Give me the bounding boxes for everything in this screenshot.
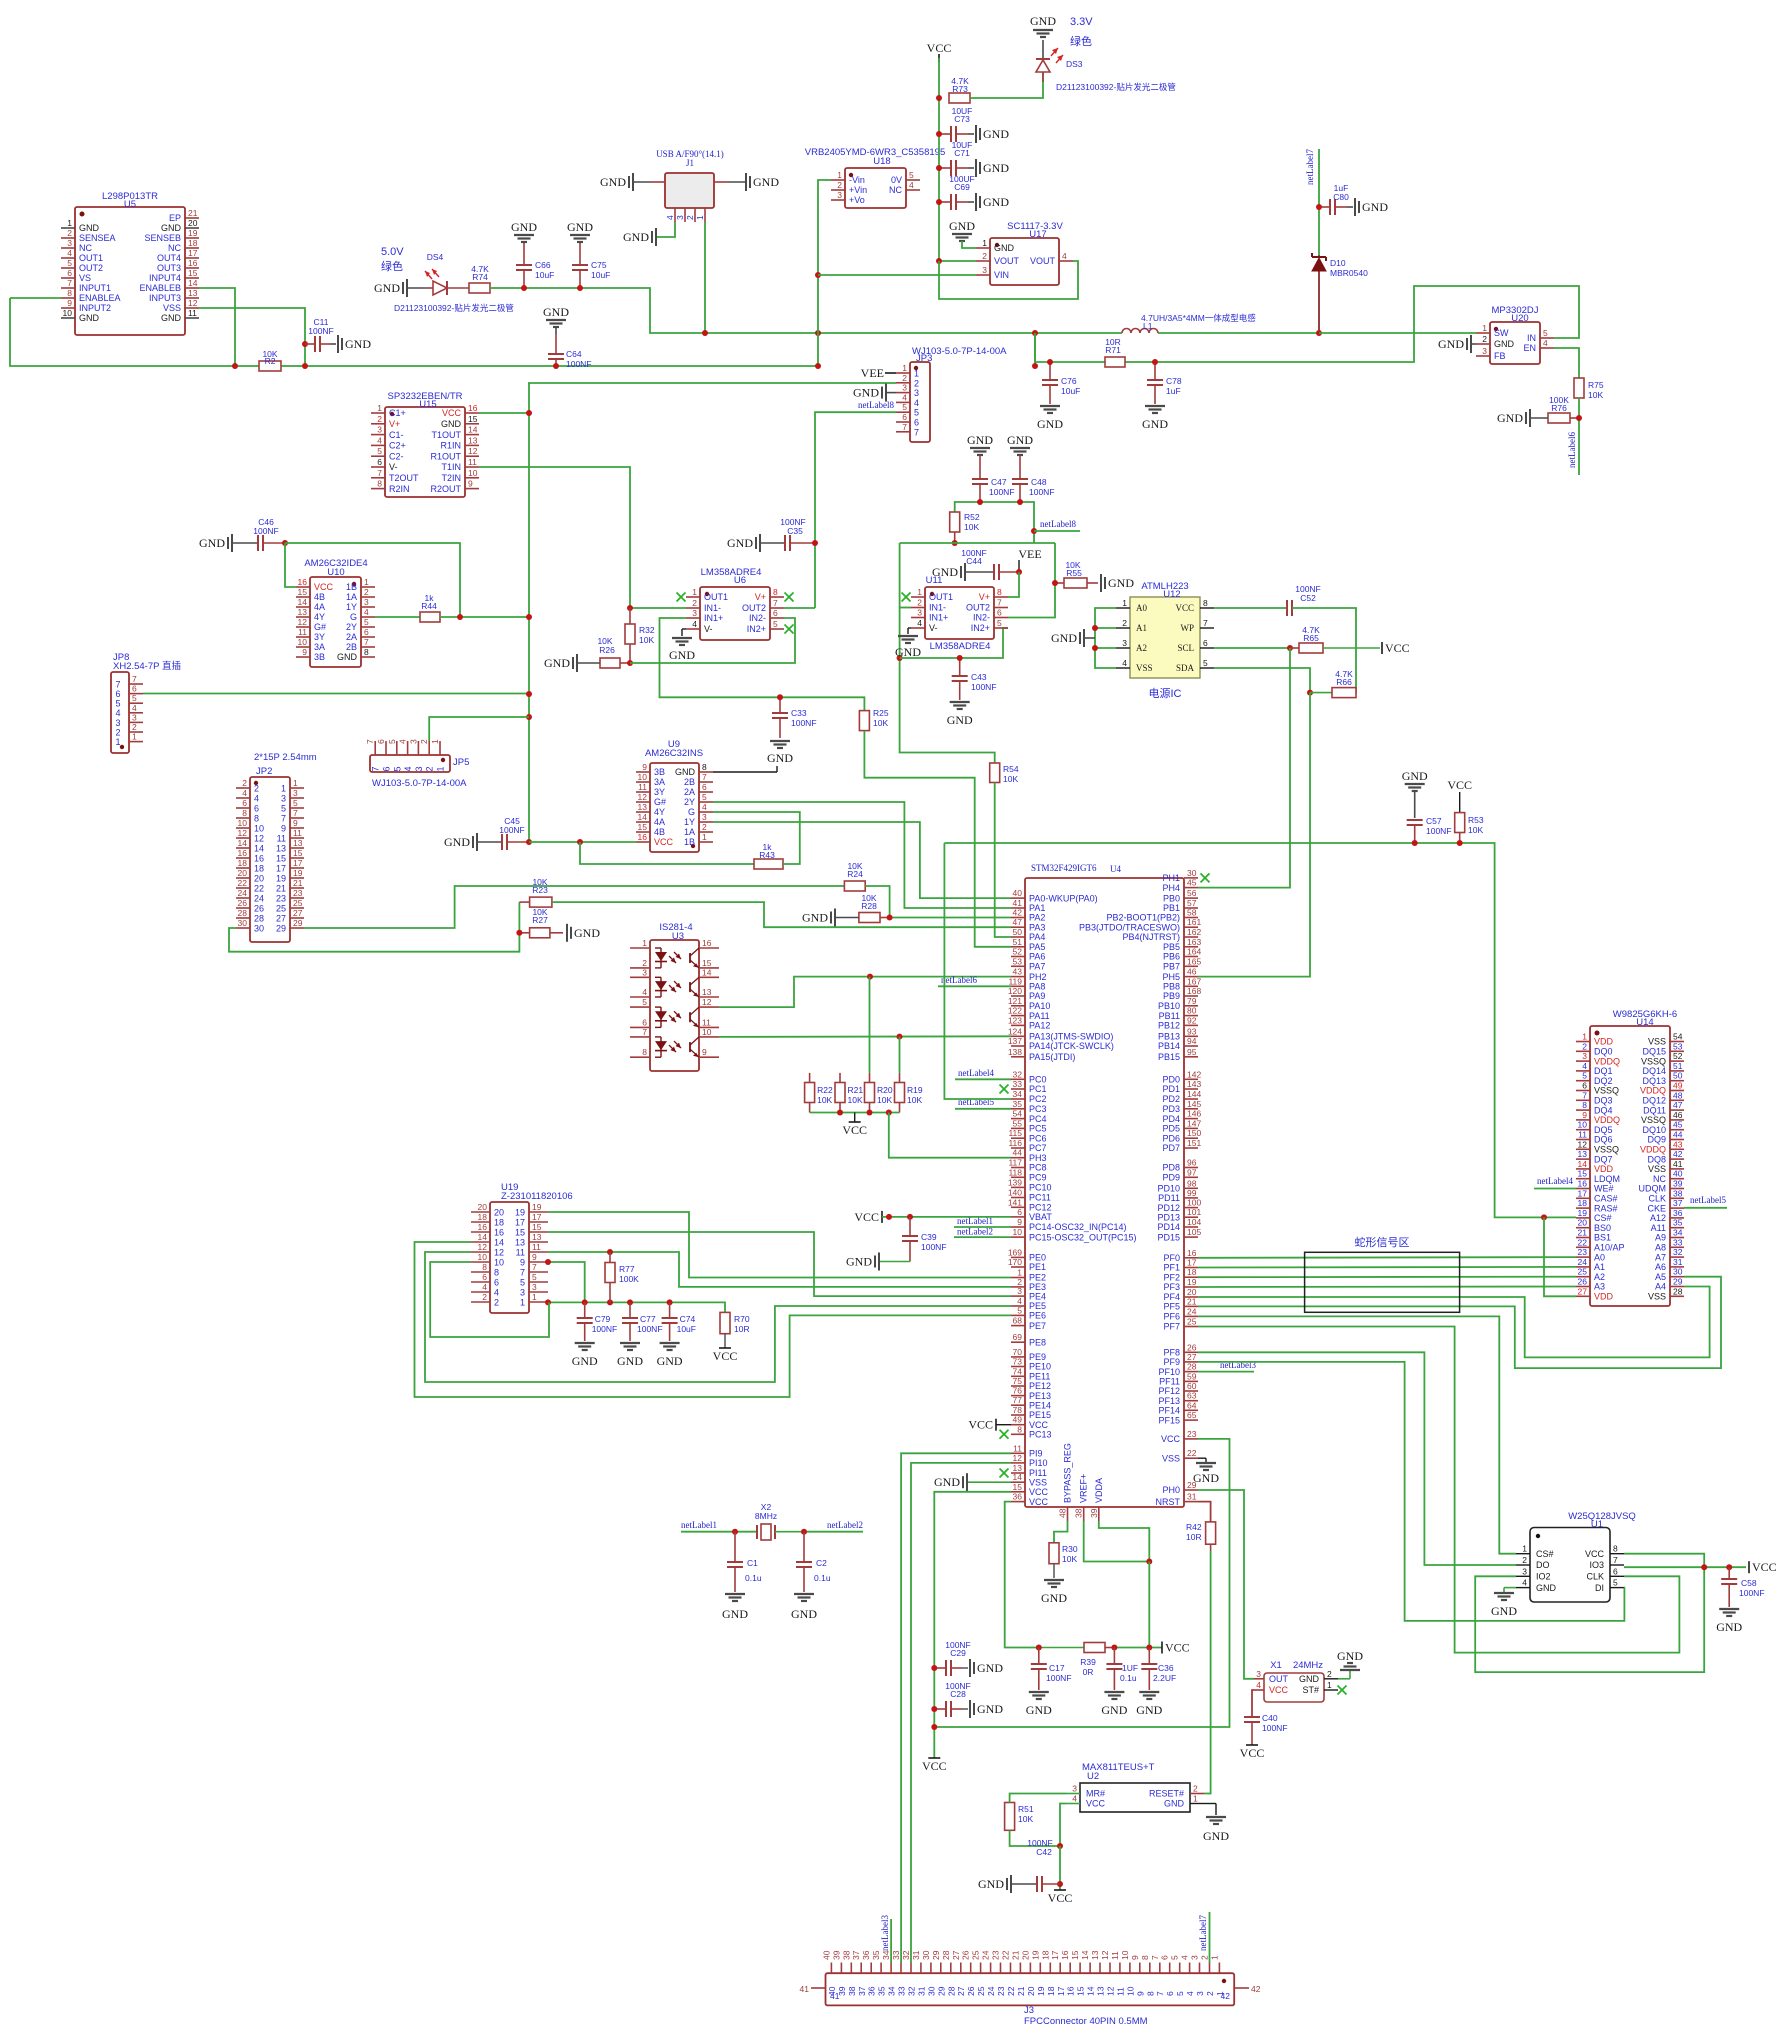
SDRAM U14 W9825G6KH-6 xyxy=(1576,1009,1684,1306)
svg-text:PD4: PD4 xyxy=(1162,1114,1180,1124)
svg-text:12: 12 xyxy=(1106,1986,1116,1996)
svg-text:OUT2: OUT2 xyxy=(79,263,103,273)
wire xyxy=(882,1216,1011,1218)
IC U9 AM26C32INS xyxy=(636,739,713,852)
svg-text:PC11: PC11 xyxy=(1029,1193,1051,1203)
svg-text:70: 70 xyxy=(1013,1347,1023,1357)
svg-text:PA3: PA3 xyxy=(1029,922,1045,932)
svg-text:1: 1 xyxy=(520,1297,525,1307)
junction xyxy=(886,1214,892,1220)
svg-text:6: 6 xyxy=(254,803,259,813)
svg-text:5: 5 xyxy=(132,693,137,703)
svg-text:43: 43 xyxy=(1673,1139,1683,1149)
svg-text:2: 2 xyxy=(1327,1669,1332,1679)
LED DS3 xyxy=(1036,40,1083,82)
svg-text:100NF: 100NF xyxy=(1426,826,1452,836)
svg-text:15: 15 xyxy=(1070,1950,1080,1960)
svg-text:IN1+: IN1+ xyxy=(704,613,723,623)
svg-text:1: 1 xyxy=(115,737,120,747)
wire U3 pin10 xyxy=(719,1035,1011,1038)
junction xyxy=(526,410,532,416)
svg-text:16: 16 xyxy=(494,1227,504,1237)
wire VIN xyxy=(818,274,976,276)
junction xyxy=(936,131,942,137)
svg-text:30: 30 xyxy=(238,918,248,928)
svg-text:39: 39 xyxy=(831,1950,841,1960)
svg-text:3: 3 xyxy=(532,1282,537,1292)
wire xyxy=(1060,1804,1066,1847)
svg-text:2: 2 xyxy=(982,251,987,261)
svg-text:C28: C28 xyxy=(950,1689,966,1699)
svg-text:RESET#: RESET# xyxy=(1149,1789,1184,1799)
svg-text:5: 5 xyxy=(902,402,907,412)
svg-text:29: 29 xyxy=(1673,1277,1683,1287)
wire xyxy=(1148,1562,1150,1648)
svg-text:C58: C58 xyxy=(1741,1578,1757,1588)
connector U19 xyxy=(471,1182,573,1313)
svg-text:3B: 3B xyxy=(654,767,665,777)
svg-text:7: 7 xyxy=(293,808,298,818)
wire xyxy=(1010,1794,1066,1803)
ground xyxy=(949,219,975,241)
svg-text:C1: C1 xyxy=(747,1558,758,1568)
svg-text:16: 16 xyxy=(1060,1950,1070,1960)
svg-text:11: 11 xyxy=(1110,1951,1120,1960)
svg-text:6: 6 xyxy=(702,782,707,792)
svg-text:C36: C36 xyxy=(1158,1663,1174,1673)
no-connect xyxy=(677,593,686,602)
svg-text:PA6: PA6 xyxy=(1029,952,1045,962)
wire PF6 to CS# xyxy=(1198,1316,1516,1553)
svg-text:VDDA: VDDA xyxy=(1094,1478,1104,1503)
svg-text:4: 4 xyxy=(494,1287,499,1297)
svg-text:14: 14 xyxy=(638,812,648,822)
svg-text:12: 12 xyxy=(188,298,198,308)
junction xyxy=(936,165,942,171)
svg-text:X1: X1 xyxy=(1270,1660,1282,1671)
svg-text:PC14-OSC32_IN(PC14): PC14-OSC32_IN(PC14) xyxy=(1029,1222,1127,1232)
svg-text:16: 16 xyxy=(468,403,478,413)
wire U19.10 loop xyxy=(430,1262,549,1337)
svg-text:GND: GND xyxy=(623,230,649,244)
svg-text:100NF: 100NF xyxy=(566,359,592,369)
connector JP2 xyxy=(236,752,317,942)
capacitor C64 xyxy=(548,334,592,369)
svg-text:VDDQ: VDDQ xyxy=(1640,1145,1666,1155)
svg-text:68: 68 xyxy=(1013,1316,1023,1326)
net netLabel5 xyxy=(958,1097,994,1107)
svg-text:119: 119 xyxy=(1008,976,1022,986)
svg-text:8: 8 xyxy=(1613,1544,1618,1554)
svg-text:5.0V: 5.0V xyxy=(381,246,404,258)
svg-text:10uF: 10uF xyxy=(677,1324,696,1334)
ground xyxy=(962,1659,1003,1677)
ground xyxy=(934,1473,1011,1491)
svg-text:7: 7 xyxy=(115,679,120,689)
svg-text:10: 10 xyxy=(478,1252,488,1262)
wire VREF xyxy=(1084,1521,1150,1562)
svg-text:GND: GND xyxy=(978,1877,1004,1891)
svg-text:4: 4 xyxy=(242,788,247,798)
svg-text:1: 1 xyxy=(1482,323,1487,333)
svg-text:1: 1 xyxy=(702,832,707,842)
power VCC xyxy=(1382,641,1410,655)
svg-text:GND: GND xyxy=(727,536,753,550)
svg-text:GND: GND xyxy=(617,1354,643,1368)
svg-text:1: 1 xyxy=(1327,1680,1332,1690)
svg-text:R26: R26 xyxy=(599,645,615,655)
svg-text:PB4(NJTRST): PB4(NJTRST) xyxy=(1122,932,1180,942)
svg-text:T2IN: T2IN xyxy=(441,473,461,483)
svg-text:27: 27 xyxy=(956,1986,966,1996)
wire U19.19 to PE2 xyxy=(548,1212,1011,1278)
ground xyxy=(968,159,1009,177)
svg-text:C74: C74 xyxy=(680,1314,696,1324)
ground xyxy=(330,335,371,353)
wire PF2-A2 xyxy=(1198,1276,1576,1279)
svg-text:C2: C2 xyxy=(816,1558,827,1568)
svg-text:14: 14 xyxy=(298,597,308,607)
junction xyxy=(607,1249,613,1255)
svg-text:10: 10 xyxy=(494,1257,504,1267)
svg-text:34: 34 xyxy=(1673,1228,1683,1238)
svg-text:15: 15 xyxy=(1076,1986,1086,1996)
svg-text:SENSEA: SENSEA xyxy=(79,233,116,243)
regulator U17 xyxy=(976,221,1073,285)
capacitor C79 xyxy=(577,1302,618,1341)
net netLabel4 xyxy=(1537,1176,1573,1186)
wire VDDA xyxy=(1099,1521,1150,1562)
svg-text:VCC: VCC xyxy=(1175,603,1194,613)
connector J3 FPC xyxy=(800,1950,1261,2027)
svg-text:53: 53 xyxy=(1673,1041,1683,1051)
svg-text:22: 22 xyxy=(238,878,248,888)
junction xyxy=(526,714,532,720)
svg-text:VBAT: VBAT xyxy=(1029,1212,1052,1222)
svg-text:12: 12 xyxy=(702,997,712,1007)
wire T1IN xyxy=(479,467,630,608)
svg-text:5: 5 xyxy=(387,739,397,744)
junction xyxy=(582,1299,588,1305)
svg-text:3: 3 xyxy=(364,597,369,607)
svg-text:45: 45 xyxy=(1187,878,1197,888)
svg-text:10R: 10R xyxy=(1186,1532,1202,1542)
ground xyxy=(1101,574,1134,592)
svg-text:XH2.54-7P 直插: XH2.54-7P 直插 xyxy=(113,660,181,672)
wire xyxy=(528,382,896,384)
junction xyxy=(907,1214,913,1220)
svg-text:C69: C69 xyxy=(954,182,970,192)
svg-text:GND: GND xyxy=(932,565,958,579)
svg-text:1: 1 xyxy=(692,587,697,597)
svg-text:netLabel4: netLabel4 xyxy=(1537,1176,1573,1186)
svg-text:GND: GND xyxy=(895,645,921,659)
svg-text:PF13: PF13 xyxy=(1158,1396,1180,1406)
svg-text:35: 35 xyxy=(1673,1218,1683,1228)
wire xyxy=(939,260,976,262)
svg-text:PE12: PE12 xyxy=(1029,1381,1051,1391)
svg-text:2Y: 2Y xyxy=(346,622,357,632)
svg-text:D10: D10 xyxy=(1330,258,1346,268)
svg-text:A0: A0 xyxy=(1136,603,1147,613)
wire xyxy=(285,543,296,587)
svg-text:PE9: PE9 xyxy=(1029,1352,1046,1362)
svg-text:35: 35 xyxy=(877,1986,887,1996)
junction xyxy=(801,1529,807,1535)
ground xyxy=(511,220,537,242)
svg-text:GND: GND xyxy=(1026,1703,1052,1717)
svg-text:5: 5 xyxy=(520,1277,525,1287)
svg-text:80: 80 xyxy=(1187,1006,1197,1016)
svg-text:IN: IN xyxy=(1527,333,1536,343)
ground xyxy=(567,220,593,242)
svg-text:GND: GND xyxy=(1491,1604,1517,1618)
svg-text:9: 9 xyxy=(702,1047,707,1057)
svg-text:DQ12: DQ12 xyxy=(1642,1096,1666,1106)
svg-text:GND: GND xyxy=(161,223,182,233)
svg-text:PC3: PC3 xyxy=(1029,1104,1047,1114)
svg-text:4: 4 xyxy=(482,1282,487,1292)
op-amp U6 xyxy=(686,567,784,640)
resistor R76 xyxy=(1548,395,1579,423)
svg-text:16: 16 xyxy=(638,832,648,842)
svg-text:R75: R75 xyxy=(1588,380,1604,390)
svg-text:13: 13 xyxy=(532,1232,542,1242)
svg-text:VDD: VDD xyxy=(1594,1164,1614,1174)
svg-text:C79: C79 xyxy=(595,1314,611,1324)
svg-text:7: 7 xyxy=(132,674,137,684)
svg-text:9: 9 xyxy=(520,1257,525,1267)
svg-text:PB1: PB1 xyxy=(1163,903,1180,913)
svg-text:17: 17 xyxy=(515,1217,525,1227)
svg-text:3: 3 xyxy=(982,265,987,275)
svg-text:1: 1 xyxy=(281,783,286,793)
wire xyxy=(1095,608,1116,668)
svg-text:18: 18 xyxy=(1046,1986,1056,1996)
svg-text:VREF+: VREF+ xyxy=(1079,1474,1089,1503)
svg-text:56: 56 xyxy=(1187,888,1197,898)
svg-text:8: 8 xyxy=(1145,1991,1155,1996)
net netLabel6 xyxy=(941,975,977,985)
svg-text:DS3: DS3 xyxy=(1066,59,1083,69)
svg-text:PI10: PI10 xyxy=(1029,1458,1048,1468)
svg-text:VCC: VCC xyxy=(1048,1891,1073,1905)
svg-text:57: 57 xyxy=(1187,898,1197,908)
svg-text:31: 31 xyxy=(911,1950,921,1960)
wire xyxy=(199,288,235,366)
svg-text:52: 52 xyxy=(1013,947,1023,957)
ground xyxy=(767,741,793,765)
svg-text:1A: 1A xyxy=(346,592,357,602)
svg-text:16: 16 xyxy=(238,848,248,858)
svg-text:PE15: PE15 xyxy=(1029,1410,1051,1420)
svg-text:27: 27 xyxy=(293,908,303,918)
svg-text:4Y: 4Y xyxy=(654,807,665,817)
svg-text:5: 5 xyxy=(914,408,919,418)
svg-text:VCC: VCC xyxy=(854,1210,879,1224)
svg-text:3: 3 xyxy=(1256,1669,1261,1679)
svg-text:PF5: PF5 xyxy=(1163,1302,1180,1312)
svg-text:25: 25 xyxy=(971,1950,981,1960)
svg-text:12: 12 xyxy=(494,1247,504,1257)
svg-text:A2: A2 xyxy=(1136,643,1147,653)
junction xyxy=(887,915,893,921)
svg-text:9: 9 xyxy=(1135,1991,1145,1996)
svg-text:VDD: VDD xyxy=(1594,1292,1614,1302)
junction xyxy=(627,1299,633,1305)
svg-text:GND: GND xyxy=(1362,200,1388,214)
svg-text:20: 20 xyxy=(1026,1986,1036,1996)
svg-text:48: 48 xyxy=(1673,1090,1683,1100)
svg-text:GND: GND xyxy=(543,305,569,319)
junction xyxy=(282,540,288,546)
svg-text:143: 143 xyxy=(1187,1079,1201,1089)
svg-text:12: 12 xyxy=(298,617,308,627)
svg-text:VS: VS xyxy=(79,273,91,283)
resistor R53 xyxy=(1447,778,1484,843)
svg-text:100NF: 100NF xyxy=(592,1324,618,1334)
svg-text:10: 10 xyxy=(1120,1950,1130,1960)
wire xyxy=(865,886,1011,918)
svg-text:1: 1 xyxy=(1209,1955,1219,1960)
svg-text:PA1: PA1 xyxy=(1029,903,1045,913)
resistor R71 xyxy=(1105,337,1125,367)
svg-text:12: 12 xyxy=(638,792,648,802)
junction xyxy=(867,1110,873,1116)
svg-text:6: 6 xyxy=(376,739,386,744)
svg-text:74: 74 xyxy=(1013,1366,1023,1376)
svg-text:GND: GND xyxy=(853,386,879,400)
svg-text:VIN: VIN xyxy=(994,270,1009,280)
junction xyxy=(627,605,633,611)
connector JP3 xyxy=(896,346,1007,442)
svg-text:PA5: PA5 xyxy=(1029,942,1045,952)
svg-text:GND: GND xyxy=(1108,576,1134,590)
svg-text:R39: R39 xyxy=(1080,1657,1096,1667)
svg-text:U12: U12 xyxy=(1163,589,1180,600)
svg-text:PB5: PB5 xyxy=(1163,942,1180,952)
svg-text:6: 6 xyxy=(773,608,778,618)
svg-text:3.3V: 3.3V xyxy=(1070,16,1093,28)
svg-text:R53: R53 xyxy=(1468,815,1484,825)
ground xyxy=(947,702,973,727)
svg-text:WJ103-5.0-7P-14-00A: WJ103-5.0-7P-14-00A xyxy=(372,778,467,789)
svg-text:VCC: VCC xyxy=(1029,1487,1049,1497)
svg-text:100NF: 100NF xyxy=(1262,1723,1288,1733)
svg-text:17: 17 xyxy=(1578,1188,1588,1198)
svg-text:12: 12 xyxy=(254,833,264,843)
junction xyxy=(526,614,532,620)
svg-text:6: 6 xyxy=(1582,1081,1587,1091)
svg-text:2: 2 xyxy=(67,228,72,238)
svg-text:1: 1 xyxy=(377,403,382,413)
svg-text:OUT3: OUT3 xyxy=(157,263,181,273)
svg-text:GND: GND xyxy=(574,926,600,940)
svg-text:3: 3 xyxy=(414,766,424,771)
svg-text:GND: GND xyxy=(977,1702,1003,1716)
svg-text:绿色: 绿色 xyxy=(1070,34,1092,48)
svg-text:PB12: PB12 xyxy=(1158,1021,1180,1031)
svg-text:EN: EN xyxy=(1523,343,1536,353)
svg-text:4: 4 xyxy=(1185,1991,1195,1996)
junction xyxy=(1316,330,1322,336)
svg-text:3: 3 xyxy=(115,718,120,728)
svg-text:PD2: PD2 xyxy=(1162,1094,1180,1104)
wire xyxy=(10,297,61,299)
capacitor C80 xyxy=(1319,183,1349,215)
wire xyxy=(784,607,815,609)
svg-text:3: 3 xyxy=(1072,1784,1077,1794)
junction xyxy=(1036,1645,1042,1651)
wire U19.15 to PE4 xyxy=(548,1232,1011,1296)
svg-text:VCC: VCC xyxy=(927,41,952,55)
svg-text:22: 22 xyxy=(1001,1950,1011,1960)
svg-text:PB11: PB11 xyxy=(1159,1011,1180,1021)
svg-text:78: 78 xyxy=(1013,1405,1023,1415)
svg-text:13: 13 xyxy=(276,843,286,853)
svg-text:PB14: PB14 xyxy=(1158,1041,1180,1051)
svg-text:12: 12 xyxy=(1013,1453,1023,1463)
wire xyxy=(815,412,896,608)
svg-text:6: 6 xyxy=(902,412,907,422)
wire U19.1 rail xyxy=(548,1302,725,1312)
svg-text:96: 96 xyxy=(1187,1158,1197,1168)
svg-text:VSSQ: VSSQ xyxy=(1641,1115,1666,1125)
svg-text:73: 73 xyxy=(1013,1357,1023,1367)
svg-text:11: 11 xyxy=(298,627,307,637)
wire xyxy=(1059,1846,1061,1890)
svg-text:65: 65 xyxy=(1187,1410,1197,1420)
svg-text:23: 23 xyxy=(276,893,286,903)
power VCC xyxy=(968,1418,1011,1432)
svg-text:18: 18 xyxy=(478,1212,488,1222)
label 5.0V xyxy=(381,246,404,273)
svg-text:DQ4: DQ4 xyxy=(1594,1105,1613,1115)
svg-text:PE6: PE6 xyxy=(1029,1311,1046,1321)
wire xyxy=(1209,1912,1211,1963)
junction xyxy=(812,540,818,546)
svg-text:PF9: PF9 xyxy=(1163,1357,1180,1367)
wire xyxy=(1095,647,1116,649)
wire xyxy=(810,1112,900,1114)
svg-text:21: 21 xyxy=(1016,1986,1026,1996)
op-amp U5 xyxy=(61,191,199,335)
ground xyxy=(1051,629,1095,647)
svg-text:IN1+: IN1+ xyxy=(929,613,948,623)
svg-text:2: 2 xyxy=(837,180,842,190)
svg-text:10K: 10K xyxy=(1468,825,1483,835)
svg-text:4A: 4A xyxy=(314,602,325,612)
svg-text:C39: C39 xyxy=(921,1232,937,1242)
svg-text:16: 16 xyxy=(1187,1248,1197,1258)
net netLabel8 xyxy=(1040,519,1076,529)
svg-text:39: 39 xyxy=(1673,1179,1683,1189)
net netLabel7 xyxy=(1305,149,1315,185)
svg-text:19: 19 xyxy=(276,873,286,883)
wire PF1-A1 xyxy=(1198,1266,1576,1269)
ground xyxy=(968,193,1009,211)
resistor R77 xyxy=(605,1252,639,1302)
svg-text:14: 14 xyxy=(238,838,248,848)
svg-text:C71: C71 xyxy=(954,148,970,158)
svg-text:19: 19 xyxy=(515,1207,525,1217)
svg-text:9: 9 xyxy=(1130,1955,1140,1960)
capacitor C66 xyxy=(516,242,554,288)
svg-text:BYPASS_REG: BYPASS_REG xyxy=(1063,1443,1073,1503)
svg-text:7: 7 xyxy=(1203,618,1208,628)
svg-text:98: 98 xyxy=(1187,1178,1197,1188)
wire xyxy=(1252,1690,1254,1716)
